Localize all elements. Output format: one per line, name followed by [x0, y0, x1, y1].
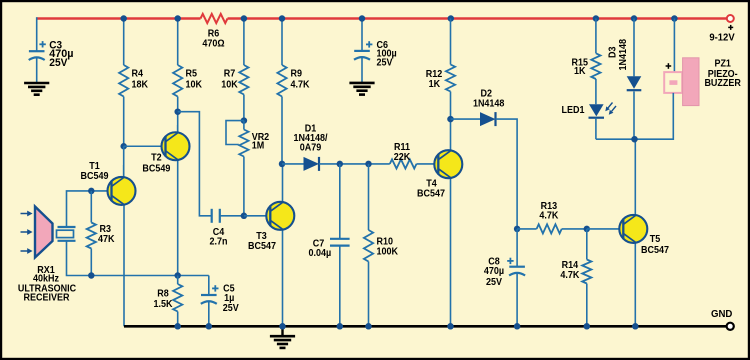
label buzzer polarity + — [666, 63, 672, 69]
junction: R4/T2 base node — [120, 143, 127, 150]
wire: T4 emitter down to 0V rail — [450, 178, 452, 326]
wire: T5 emitter down to 0V rail — [634, 243, 636, 327]
svg-text:25V: 25V — [377, 58, 393, 69]
resistor R6 (470 ohm, in red rail) — [201, 14, 228, 23]
svg-text:1N4148: 1N4148 — [473, 98, 505, 109]
capacitor C6 (100u 25V electrolytic) — [354, 41, 372, 60]
junction: 0V rail / C7 — [337, 323, 344, 330]
wire: node to T5 base — [587, 228, 624, 230]
svg-text:1N4148: 1N4148 — [618, 39, 629, 71]
junction: 0V rail / T3 emitter — [279, 323, 286, 330]
svg-text:BC549: BC549 — [81, 171, 109, 182]
transistor T1 (BC549) — [108, 177, 136, 205]
resistor R11 (22K) — [390, 159, 439, 168]
wire: rail to D3 — [633, 19, 635, 77]
capacitor C8 (470u 25V electrolytic) — [507, 229, 525, 326]
label R8 — [154, 289, 174, 311]
label T3 — [248, 231, 276, 252]
diode D2 (1N4148) — [480, 112, 496, 126]
preset VR2 (1M) wiper loop — [226, 121, 244, 145]
junction: D1 line / C7 — [337, 161, 344, 168]
label C4 — [210, 227, 228, 248]
wire: +V red supply rail left of R6 — [37, 17, 201, 20]
wire: D2 anode — [451, 118, 481, 120]
junction: +V rail / R5 — [174, 15, 181, 22]
transducer RX1 element — [57, 227, 76, 241]
svg-text:22K: 22K — [394, 152, 411, 163]
label R5 — [186, 69, 203, 91]
label D1 — [294, 124, 328, 154]
LED1 arrows — [605, 103, 616, 115]
ground below C6 — [349, 83, 374, 95]
label R4 — [132, 69, 149, 91]
junction: 0V rail / C5 — [206, 323, 213, 330]
label C6 — [377, 40, 397, 69]
junction: 0V rail / R8 — [174, 323, 181, 330]
label R11 — [394, 142, 411, 163]
LED1 indicator — [589, 104, 605, 118]
label D3 (rotated) — [608, 39, 630, 71]
svg-text:4.7K: 4.7K — [539, 210, 559, 221]
label R10 — [377, 237, 399, 258]
svg-text:BC547: BC547 — [417, 189, 445, 200]
label T2 — [142, 153, 170, 175]
svg-text:470Ω: 470Ω — [202, 38, 224, 49]
wire: T2 collector up — [177, 125, 179, 133]
svg-text:2.7n: 2.7n — [210, 236, 228, 247]
wire: D1 cathode to T4 base line — [319, 163, 390, 165]
wire: LED1 cathode down — [595, 118, 597, 140]
resistor R10 (100K) — [364, 164, 373, 326]
buzzer PZ1 body — [683, 58, 699, 106]
transistor T3 (BC547) — [266, 202, 294, 230]
svg-text:4.7K: 4.7K — [560, 270, 580, 281]
label R9 — [291, 69, 311, 91]
junction: +V rail / R4 — [120, 15, 127, 22]
junction: LED-D3-buzzer node / T5 collector — [631, 136, 638, 143]
svg-text:10K: 10K — [186, 80, 203, 91]
label T4 — [417, 178, 445, 199]
wire: node down to T1 collector — [123, 146, 125, 177]
svg-text:4.7K: 4.7K — [291, 80, 311, 91]
label R6 value — [202, 29, 224, 50]
preset VR2 (1M) resistor body — [239, 121, 248, 216]
transistor T5 (BC547) — [619, 215, 647, 243]
svg-text:R5: R5 — [186, 69, 198, 80]
label D2 — [473, 89, 505, 110]
svg-text:1M: 1M — [252, 141, 265, 152]
capacitor C3 (470u 25V electrolytic) — [29, 41, 46, 60]
wire: T5 collector up to LED/D3 node — [634, 139, 636, 215]
label T1 — [81, 161, 109, 182]
resistor R14 (4.7K) — [582, 229, 591, 326]
wire: RX1 top to T1 base — [67, 191, 113, 227]
wire: coupling node to C4 — [178, 112, 212, 216]
svg-text:BC547: BC547 — [248, 241, 276, 252]
label R7 — [221, 69, 238, 91]
svg-text:T2: T2 — [151, 153, 162, 164]
label R14 — [560, 260, 580, 281]
junction: 0V rail / R14 — [584, 323, 591, 330]
wire: T2 emitter down to R8 node — [177, 160, 179, 276]
wire: node to D1 — [282, 163, 304, 165]
terminal: +9-12V supply input — [727, 15, 734, 22]
svg-text:100K: 100K — [377, 246, 399, 257]
resistor R15 (1K) — [591, 19, 600, 105]
svg-text:R9: R9 — [291, 69, 303, 80]
svg-text:25V: 25V — [223, 303, 239, 314]
svg-text:10K: 10K — [221, 80, 238, 91]
junction: +V rail / R9 — [279, 15, 286, 22]
svg-text:BUZZER: BUZZER — [704, 78, 741, 89]
junction: base node / R3 top — [88, 188, 95, 195]
wire: T3 collector up to D1 node — [282, 164, 284, 202]
label C7 — [309, 238, 332, 259]
transistor T4 (BC547) — [434, 150, 462, 178]
svg-text:BC547: BC547 — [641, 245, 669, 256]
junction: 0V rail / C8 — [514, 323, 521, 330]
label 9-12V — [709, 32, 735, 43]
svg-text:0.04µ: 0.04µ — [309, 248, 332, 259]
junction: +V rail / R12 — [448, 15, 455, 22]
resistor R12 (1K, in T4 collector line) — [446, 65, 455, 92]
label C3 — [49, 40, 73, 69]
junction: R5/C4 coupling node — [174, 108, 181, 115]
junction: 0V rail / T5 emitter — [632, 323, 639, 330]
junction: +V rail / R15 — [593, 15, 600, 22]
label supply polarity + — [728, 25, 733, 30]
resistor R4 (18K) — [119, 19, 128, 147]
junction: +V rail / PZ1 — [671, 15, 678, 22]
label R3 — [98, 224, 115, 245]
wire: rail to buzzer — [673, 19, 675, 73]
wire: T3 emitter down to 0V rail — [282, 229, 284, 326]
junction: emitter node / R8 — [174, 272, 181, 279]
wire: buzzer to LED/D3 node — [596, 93, 673, 139]
svg-text:GND: GND — [711, 309, 732, 320]
svg-text:470µ: 470µ — [484, 266, 504, 277]
transducer RX1 horn — [35, 207, 53, 258]
wire: D3 cathode down — [633, 92, 635, 140]
arrow 1 into RX1 — [21, 211, 33, 217]
svg-text:R8: R8 — [157, 289, 169, 300]
label LED1 — [562, 105, 585, 116]
svg-text:1K: 1K — [429, 79, 441, 90]
svg-text:25V: 25V — [49, 57, 67, 69]
transistor T2 (BC549) — [162, 132, 190, 160]
wire: RX1 bottom to emitter node — [67, 241, 209, 276]
wire: D2 cathode to R13/C8 node — [496, 119, 518, 229]
buzzer PZ1 terminal box — [664, 72, 682, 93]
wire: node to T2 base — [124, 145, 166, 147]
junction: +V rail / R7 — [241, 15, 248, 22]
arrow 2 into RX1 — [21, 229, 33, 235]
junction: 0V rail / T4 emitter — [447, 323, 454, 330]
label R13 — [539, 201, 559, 221]
svg-text:LED1: LED1 — [562, 105, 585, 116]
arrow 3 into RX1 — [21, 248, 33, 254]
wire: 0V ground rail — [124, 325, 729, 328]
wire: +V red supply rail right of R6 — [228, 17, 727, 20]
wire: C6 to ground — [361, 58, 363, 83]
svg-text:47K: 47K — [98, 234, 115, 245]
svg-text:25V: 25V — [486, 277, 502, 288]
svg-text:R4: R4 — [132, 69, 144, 80]
label VR2 — [252, 132, 270, 152]
resistor R5 (10K) — [173, 19, 182, 133]
wire: T1 emitter down to 0V rail — [123, 204, 125, 326]
resistor R9 (4.7K) — [277, 19, 286, 164]
junction: 0V rail / R10 — [365, 323, 372, 330]
label RX1 — [18, 265, 76, 304]
wire: rail to C6 — [361, 17, 363, 51]
capacitor C7 (0.04u) — [330, 164, 350, 326]
junction: +V rail / C6 — [359, 15, 366, 22]
svg-text:BC549: BC549 — [142, 164, 170, 175]
svg-text:T5: T5 — [650, 234, 661, 245]
junction: emitter node / R3 bottom — [88, 272, 95, 279]
svg-text:D3: D3 — [608, 46, 619, 58]
label T5 — [641, 234, 669, 256]
junction: R7/VR2 top node — [241, 117, 248, 124]
wire: T1 collector up to R4 line — [123, 165, 125, 178]
label C8 — [484, 256, 504, 288]
resistor R3 (47K) — [87, 191, 96, 276]
junction: R9/T3 collector/D1 anode — [279, 161, 286, 168]
label R15 — [572, 58, 589, 78]
diode D1 (1N4148/OA79) — [304, 157, 320, 171]
terminal: GND — [727, 323, 734, 330]
junction: R13/R14/T5 base node — [584, 226, 591, 233]
label C5 voltage — [223, 303, 239, 314]
resistor R8 (1.5K) — [173, 276, 182, 327]
label C5 — [223, 284, 235, 304]
ground symbol on 0V rail — [270, 326, 295, 348]
wire: rail to C3 — [36, 17, 38, 51]
diode D3 (1N4148) — [627, 76, 642, 90]
capacitor C4 (2.7n) — [212, 209, 244, 223]
wire: C3 to ground — [36, 58, 38, 83]
svg-text:R7: R7 — [224, 69, 236, 80]
svg-text:RECEIVER: RECEIVER — [24, 293, 71, 304]
label GND — [711, 309, 732, 320]
resistor R7 (10K) — [239, 19, 248, 121]
ground below C3 — [24, 83, 49, 95]
capacitor C5 (1u 25V electrolytic) — [201, 276, 219, 327]
svg-text:9-12V: 9-12V — [709, 32, 735, 43]
label PZ1 — [704, 59, 741, 90]
svg-text:18K: 18K — [132, 80, 149, 91]
wire: T4 collector up to rail — [450, 19, 452, 152]
label R12 — [426, 69, 443, 90]
junction: D2/C8/R13 node — [514, 226, 521, 233]
wire: node to T3 base — [244, 215, 270, 217]
svg-text:0A79: 0A79 — [300, 143, 322, 154]
junction: C4/VR2/T3 base node — [241, 213, 248, 220]
junction: +V rail / D3 — [631, 15, 638, 22]
svg-text:1.5K: 1.5K — [154, 299, 174, 310]
junction: D1 line / R10 — [365, 161, 372, 168]
svg-text:1K: 1K — [574, 66, 586, 77]
junction: T4 collector / D2 anode — [447, 116, 454, 123]
resistor R13 (4.7K) — [517, 224, 587, 233]
